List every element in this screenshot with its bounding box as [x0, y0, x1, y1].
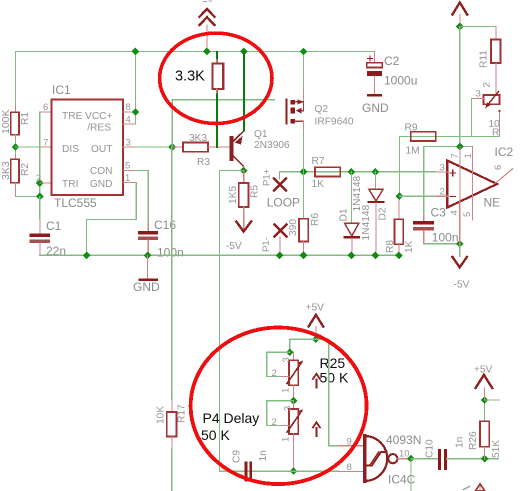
junction bus end R8 [395, 251, 403, 259]
junction R26 top +5V [481, 396, 489, 404]
svg-text:IC2: IC2 [495, 145, 514, 159]
svg-text:GND: GND [133, 280, 160, 294]
wire bottom loop bus y=471.2 [219, 470, 339, 472]
pin 1 GND lead [123, 181, 135, 183]
op-amp IC2 NE5534 [435, 145, 513, 244]
svg-text:DIS: DIS [62, 144, 79, 155]
svg-text:3: 3 [476, 89, 481, 100]
svg-text:50 K: 50 K [201, 427, 230, 443]
junction pot2 bottom [290, 467, 298, 475]
junction rail-VCC [132, 48, 140, 56]
wire OUT to node [135, 146, 172, 148]
junction TRI node [36, 179, 44, 187]
svg-text:C3: C3 [431, 206, 447, 220]
svg-text:P1+: P1+ [262, 168, 273, 186]
svg-text:2: 2 [482, 82, 493, 87]
svg-text:IC1: IC1 [52, 83, 71, 97]
wire annotation dark green left [216, 52, 218, 147]
resistor R8 [385, 195, 415, 255]
resistor 3.3K annotation [175, 60, 223, 94]
resistor R7 [312, 156, 341, 190]
wire bottom bus y=255.3 [40, 254, 400, 256]
junction bus-D1 [348, 251, 356, 259]
svg-text:GND: GND [90, 179, 113, 190]
junction +5V pots [312, 335, 320, 343]
wire left rail down to R1 [14, 51, 16, 105]
wire in- row to op-amp [399, 195, 435, 197]
svg-text:P1-: P1- [261, 237, 272, 252]
junction rail-Q1 collector line [240, 48, 248, 56]
resistor R9 [405, 123, 436, 157]
wire VCC vertical x=135.4 [134, 51, 136, 123]
wire top rail y=51.4 from R1 to C2 [15, 50, 374, 52]
svg-text:3.3K: 3.3K [175, 69, 205, 85]
capacitor C9 1n [232, 450, 270, 482]
wire C10 to R26 node [447, 458, 500, 460]
svg-text:3: 3 [440, 163, 445, 174]
capacitor C10 1n [425, 437, 466, 470]
svg-text:1N4148: 1N4148 [361, 204, 372, 240]
wire R9 row y=136.4 [399, 135, 499, 137]
svg-text:R5: R5 [250, 185, 261, 198]
wire annotation dark green right [243, 52, 245, 131]
wire pot pin3 down [471, 99, 473, 137]
svg-text:1M: 1M [406, 146, 420, 157]
transistor Q1 2N3906 [229, 129, 290, 171]
svg-text:2N3906: 2N3906 [254, 140, 290, 151]
svg-text:VCC+: VCC+ [85, 111, 113, 122]
svg-text:9: 9 [347, 437, 352, 448]
junction +5V node [456, 23, 464, 31]
capacitor C2 1000u [367, 51, 418, 94]
svg-text:2: 2 [272, 417, 277, 428]
svg-text:1n: 1n [455, 437, 466, 448]
pin 3 OUT lead [123, 146, 135, 148]
capacitor C3 100n [413, 206, 458, 245]
wire Q2 gate from OUT node [172, 100, 274, 147]
svg-text:P4 Delay: P4 Delay [203, 410, 260, 426]
svg-text:R11: R11 [479, 50, 490, 68]
wire Q2 source up to rail [303, 51, 305, 88]
junction bus-C16 [144, 251, 152, 259]
svg-text:1000u: 1000u [384, 74, 417, 88]
junction in+ row / Q2 drain [300, 168, 308, 176]
junction pot1 top [286, 348, 294, 356]
svg-text:OUT: OUT [91, 144, 113, 155]
svg-text:R9: R9 [405, 123, 418, 134]
svg-text:1K5: 1K5 [228, 186, 239, 204]
svg-text:8: 8 [126, 102, 131, 113]
potentiometer R25 [272, 352, 320, 401]
svg-text:100K: 100K [0, 109, 12, 134]
resistor R11 [479, 27, 501, 96]
wire pot2 wiper loop [267, 401, 294, 426]
svg-text:4093N: 4093N [386, 433, 421, 447]
wire pots top row [290, 338, 329, 340]
wire down to C1 [39, 196, 41, 219]
supply +5V arrow top right [452, 3, 467, 27]
wire node R1/R2 [14, 140, 16, 155]
junction between pots [290, 397, 298, 405]
junction bus-pin1 [83, 251, 91, 259]
svg-text:1: 1 [281, 388, 292, 393]
svg-text:+5V: +5V [306, 303, 325, 314]
annotation ellipse around 3.3K [160, 33, 272, 123]
svg-text:100n: 100n [432, 231, 459, 245]
wire C3 bottom to -5V [424, 243, 460, 245]
svg-text:Q1: Q1 [254, 129, 268, 140]
svg-text:2: 2 [440, 187, 445, 198]
transistor Q2 IRF9640 [286, 88, 354, 131]
resistor R26 [468, 400, 502, 459]
svg-text:8: 8 [347, 462, 352, 473]
wire DIS pin7 [15, 146, 39, 148]
junction V+ [456, 143, 464, 151]
pin 6 lead [40, 111, 52, 113]
wire in+ row y=171.8 [280, 171, 436, 173]
svg-text:IRF9640: IRF9640 [315, 117, 354, 128]
pin 8 lead [123, 111, 135, 113]
svg-text:IC4C: IC4C [388, 473, 416, 487]
svg-text:D2: D2 [378, 207, 389, 220]
wire +5V to R11 [460, 26, 496, 28]
supply -5V arrow below R5 [226, 222, 251, 253]
svg-text:TRI: TRI [62, 179, 78, 190]
junction R2-C1 node [36, 193, 44, 201]
svg-text:2: 2 [36, 173, 41, 184]
junction Q1 emitter node [240, 167, 248, 175]
junction in+ row / D2 [372, 168, 380, 176]
svg-text:NE: NE [484, 196, 501, 210]
svg-text:51K: 51K [491, 440, 502, 458]
svg-text:10K: 10K [156, 406, 167, 424]
wire pot1 wiper loop [267, 352, 290, 376]
resistor R6 [288, 172, 321, 256]
junction OUT node [168, 143, 176, 151]
junction bus-R6 [300, 251, 308, 259]
svg-text:TLC555: TLC555 [54, 196, 97, 210]
svg-text:3: 3 [283, 406, 294, 411]
svg-text:R1: R1 [20, 112, 31, 125]
svg-text:7: 7 [450, 153, 461, 158]
svg-text:C2: C2 [384, 54, 400, 68]
resistor R3 [172, 133, 229, 168]
svg-text:1: 1 [281, 437, 292, 442]
wire R9 left down to in- node [398, 136, 400, 196]
svg-text:R6: R6 [310, 213, 321, 226]
svg-text:/RES: /RES [87, 123, 111, 134]
node P1+ test point [262, 168, 287, 190]
svg-text:R2: R2 [20, 163, 31, 176]
junction bus-D2 [372, 251, 380, 259]
junction in+ row / D1 [348, 168, 356, 176]
svg-text:R8: R8 [385, 240, 396, 253]
svg-text:TRE: TRE [62, 111, 83, 122]
svg-text:4: 4 [449, 210, 460, 215]
junction rail-VCC arrow [203, 48, 211, 56]
resistor R5 [228, 171, 261, 230]
svg-text:7: 7 [43, 138, 48, 149]
supply arrow partial bottom edge [475, 484, 485, 491]
supply -5V arrow right [452, 244, 469, 291]
svg-text:C9: C9 [232, 450, 243, 463]
annotation ellipse around pots [191, 328, 367, 485]
svg-text:6: 6 [43, 102, 48, 113]
svg-text:C16: C16 [154, 218, 176, 232]
diode D2 1N4148 [361, 172, 389, 256]
wire Q2 drain down [303, 131, 305, 172]
junction bus-P1- [276, 251, 284, 259]
wire TRE/TRI vertical x=39.8 [39, 112, 41, 196]
ground GND below C2 [362, 94, 389, 115]
capacitor C16 [138, 218, 184, 260]
svg-text:3: 3 [281, 357, 292, 362]
wire GND pin to bottom bus [87, 182, 137, 255]
wire CON to C16 [135, 171, 148, 224]
svg-text:50 K: 50 K [320, 370, 349, 386]
svg-text:1K: 1K [312, 179, 325, 190]
svg-text:1K: 1K [404, 240, 415, 253]
svg-text:1n: 1n [258, 450, 269, 461]
wire OUT long vertical x=171.8 [171, 147, 174, 400]
pin 2 lead [40, 182, 52, 184]
svg-text:C1: C1 [46, 219, 62, 233]
junction V- node [456, 240, 464, 248]
svg-text:3K3: 3K3 [0, 161, 12, 180]
op IC1 TLC555 body [36, 83, 131, 210]
pin 4 lead [123, 123, 135, 125]
svg-text:6: 6 [493, 165, 504, 170]
wire pot pin1 down [499, 113, 501, 137]
svg-text:2: 2 [272, 368, 277, 379]
junction in- node [396, 192, 404, 200]
wire loop long vertical x=219.4 [219, 171, 243, 472]
node A junction R1-R2 [12, 143, 20, 151]
svg-text:5: 5 [462, 212, 473, 217]
wire +5V long vertical [459, 27, 461, 147]
capacitor C1 [29, 219, 66, 258]
svg-text:Q2: Q2 [315, 104, 329, 115]
svg-text:CON: CON [90, 166, 113, 177]
svg-text:R7: R7 [312, 156, 325, 167]
svg-text:R17: R17 [177, 404, 188, 423]
wire stub right at R26 top [485, 399, 500, 401]
supply +5V arrow above pots [306, 303, 325, 340]
wire output down to edge [410, 459, 412, 491]
node P1- test point [261, 225, 287, 256]
supply +5V arrow bottom right [474, 365, 493, 401]
wire R17 to bottom edge [171, 449, 173, 491]
potentiometer R12 top right [472, 89, 501, 139]
svg-text:3K3: 3K3 [189, 133, 207, 144]
svg-text:R26: R26 [468, 431, 479, 450]
resistor R17 [156, 400, 188, 449]
junction pin8 [132, 108, 140, 116]
svg-text:390: 390 [288, 219, 299, 236]
svg-text:-5V: -5V [454, 280, 470, 291]
svg-text:-5V: -5V [226, 241, 242, 252]
ground GND below C16 [133, 255, 160, 294]
wire output to C10 [411, 458, 438, 460]
junction rail-Q2 [300, 48, 308, 56]
svg-text:100n: 100n [157, 246, 184, 260]
nand gate IC4C 4093N [339, 433, 421, 487]
wire V+ row y=146.6 [424, 146, 473, 148]
resistor R1 [0, 105, 31, 140]
svg-text:GND: GND [362, 101, 389, 115]
svg-text:R3: R3 [197, 157, 210, 168]
wire down to pot1 node [289, 339, 291, 352]
junction R26 bottom [481, 455, 489, 463]
svg-text:5: 5 [125, 161, 130, 172]
junction gate output [407, 455, 415, 463]
wire R2 bottom to TRI node [15, 195, 39, 197]
label remnant top edge [204, 0, 212, 3]
supply VCC arrow top left [200, 9, 215, 51]
resistor R2 [0, 155, 31, 196]
wire pin9 branch [329, 339, 339, 446]
diode D1 1N4148 [339, 172, 364, 256]
label partial diagonal bottom edge [463, 487, 469, 490]
wire V+ corner down to C3 [423, 147, 425, 215]
svg-text:1: 1 [463, 153, 474, 158]
svg-text:C10: C10 [425, 439, 436, 458]
svg-text:D1: D1 [339, 208, 350, 221]
pin 5 CON lead [123, 170, 135, 172]
svg-text:LOOP: LOOP [267, 196, 300, 210]
potentiometer P4 [272, 401, 320, 471]
